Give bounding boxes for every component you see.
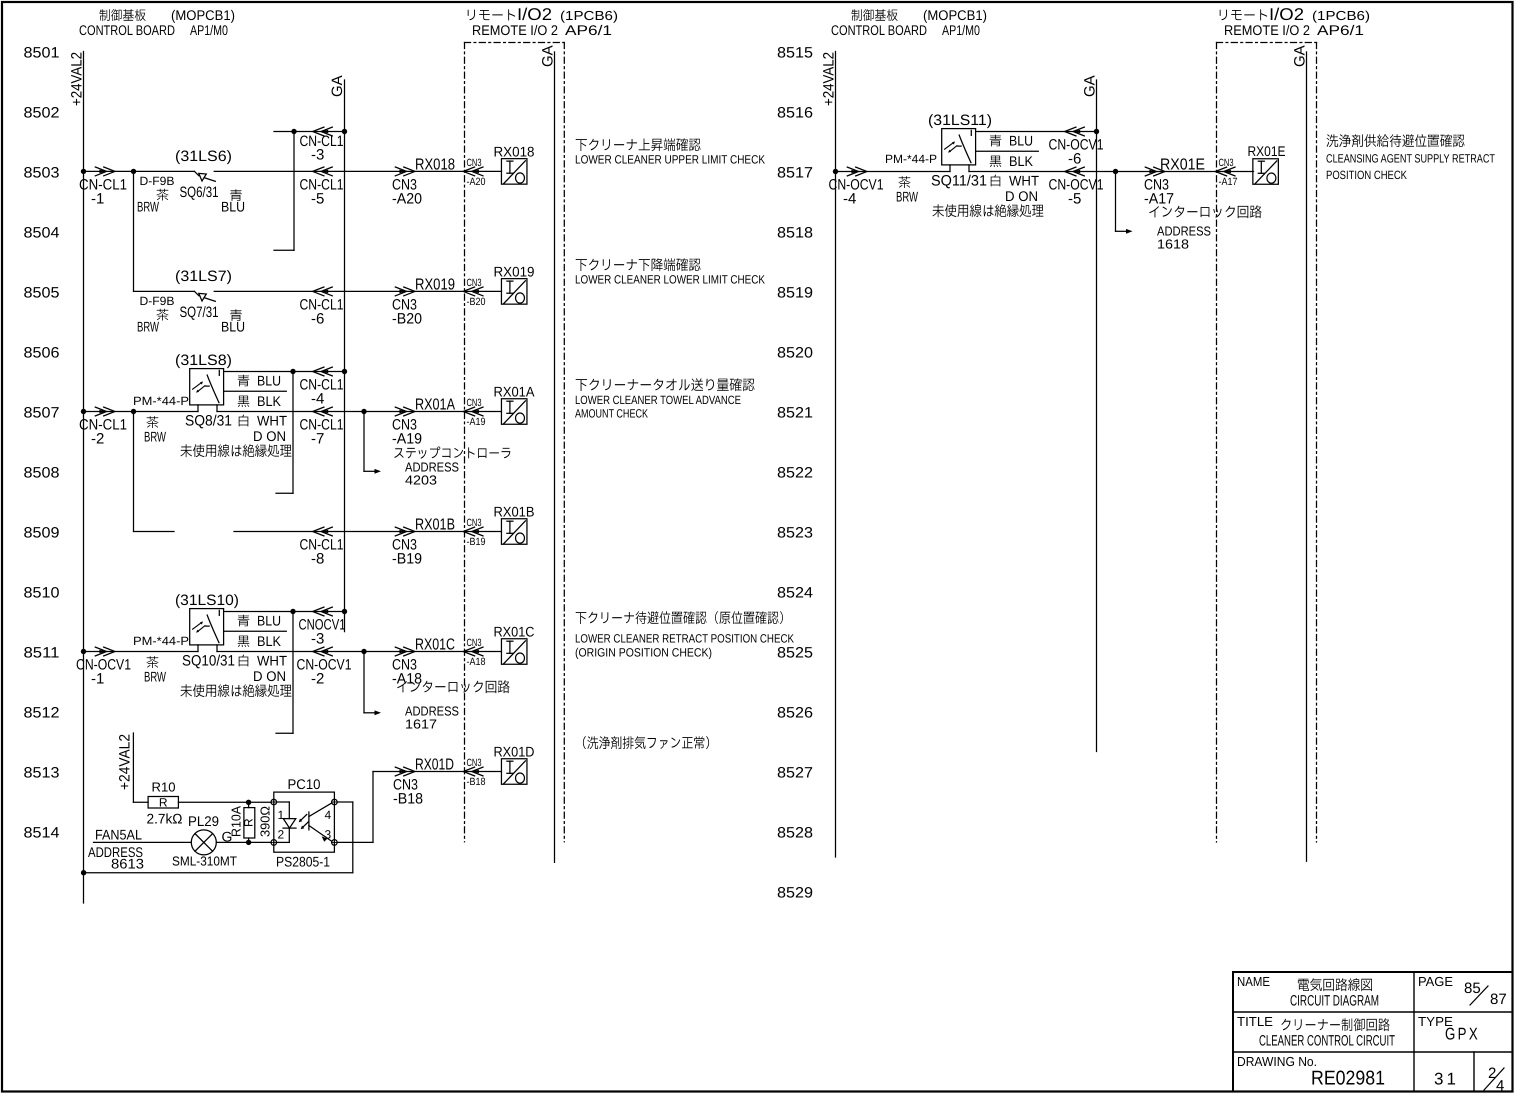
proximity switch SQ11/31 (31LS11) xyxy=(885,112,992,190)
svg-text:-A17: -A17 xyxy=(1144,191,1174,208)
svg-text:GA: GA xyxy=(1082,75,1099,97)
line number labels 8515-8529 xyxy=(777,45,813,902)
svg-text:8501: 8501 xyxy=(24,45,60,62)
connector CN-OCV1-1 xyxy=(76,647,131,687)
resistor R10 2.7k xyxy=(147,780,183,827)
svg-text:BLU: BLU xyxy=(257,613,281,629)
connector CN3-B19 (plug) xyxy=(392,517,455,568)
svg-text:8504: 8504 xyxy=(24,225,60,242)
svg-text:BLK: BLK xyxy=(257,393,282,409)
svg-text:PM-*44-P: PM-*44-P xyxy=(133,394,189,408)
svg-text:CONTROL BOARD: CONTROL BOARD xyxy=(831,22,927,38)
svg-text:-4: -4 xyxy=(843,191,856,208)
node: BLU junction 8510 xyxy=(290,609,295,614)
svg-text:D ON: D ON xyxy=(1005,188,1038,204)
GA net line (left control board) xyxy=(329,75,346,631)
node: BLU to GA xyxy=(342,369,347,374)
svg-text:CN3: CN3 xyxy=(467,157,482,169)
svg-text:CN3: CN3 xyxy=(467,637,482,649)
node: step controller branch xyxy=(361,409,366,414)
svg-text:8508: 8508 xyxy=(24,465,60,482)
svg-text:CN3: CN3 xyxy=(1219,157,1234,169)
wire BLU 31LS10 to CNOCV1-3 xyxy=(224,612,345,629)
remote I/O boundary (left, dash-dot box) xyxy=(465,43,565,842)
svg-text:PS2805-1: PS2805-1 xyxy=(276,854,330,870)
GA net line (left remote I/O) xyxy=(540,45,557,862)
svg-text:-A19: -A19 xyxy=(392,431,422,448)
svg-text:WHT: WHT xyxy=(257,413,287,429)
wire BLU 31LS11 to CN-OCV1-6 xyxy=(976,132,1097,149)
connector CN3-A17 (plug) xyxy=(1144,157,1205,208)
wire to interlock note 8517 xyxy=(1116,172,1133,234)
note: lower cleaner upper limit check xyxy=(575,138,765,166)
svg-text:BLK: BLK xyxy=(257,633,282,649)
title: cleaner control circuit xyxy=(1237,1014,1395,1050)
label WHT wire xyxy=(239,413,288,445)
svg-text:CONTROL BOARD: CONTROL BOARD xyxy=(79,22,175,38)
note: cleansing agent exhaust fan normal xyxy=(583,736,709,749)
svg-text:-1: -1 xyxy=(91,671,104,688)
line number labels 8501-8514 xyxy=(24,45,60,842)
wire BLU 31LS8 to CN-CL1-4 xyxy=(224,372,345,389)
svg-text:PM-*44-P: PM-*44-P xyxy=(885,152,937,166)
connector CN3-A20 (plug) xyxy=(392,157,455,208)
node: junction on bus 8503 xyxy=(81,169,86,174)
svg-text:-2: -2 xyxy=(91,431,104,448)
svg-text:R: R xyxy=(159,796,168,810)
svg-text:AP6/1: AP6/1 xyxy=(565,22,612,38)
note: retract position check xyxy=(575,611,794,659)
I/O input RX01B xyxy=(494,504,535,545)
svg-text:SQ7/31: SQ7/31 xyxy=(180,304,219,321)
wire branch 8503 to 8505 xyxy=(133,171,135,291)
note: unused wires insulated (8517) xyxy=(933,204,1044,217)
svg-text:PL29: PL29 xyxy=(188,813,219,829)
svg-text:FAN5AL: FAN5AL xyxy=(95,827,142,843)
svg-text:+24VAL2: +24VAL2 xyxy=(117,734,134,790)
wire 8507 bus to 31LS8 xyxy=(84,411,199,413)
proximity switch SQ8/31 (31LS8) xyxy=(133,352,232,430)
svg-text:8503: 8503 xyxy=(24,165,60,182)
title: name circuit diagram xyxy=(1237,974,1379,1010)
svg-text:SQ11/31: SQ11/31 xyxy=(931,173,987,190)
svg-text:8519: 8519 xyxy=(777,285,813,302)
node: junction on bus 8507 xyxy=(81,409,86,414)
svg-text:(31LS11): (31LS11) xyxy=(928,112,992,129)
svg-text:8520: 8520 xyxy=(777,345,813,362)
svg-text:-A18: -A18 xyxy=(392,671,422,688)
label wire colors 31LS8 xyxy=(144,416,167,444)
svg-text:GA: GA xyxy=(329,75,346,97)
node: junction on bus 8517 xyxy=(833,169,838,174)
svg-text:(1PCB6): (1PCB6) xyxy=(560,8,618,23)
node: return junction on bus xyxy=(81,870,86,875)
svg-text:-A19: -A19 xyxy=(467,416,486,428)
svg-text:CN3: CN3 xyxy=(467,757,482,769)
phototransistor inside PC10 xyxy=(309,803,332,842)
svg-text:BLK: BLK xyxy=(1009,153,1034,169)
svg-text:DRAWING No.: DRAWING No. xyxy=(1237,1054,1317,1069)
svg-text:8505: 8505 xyxy=(24,285,60,302)
I/O input RX01D xyxy=(494,744,535,785)
svg-text:R10: R10 xyxy=(152,780,176,795)
svg-text:8524: 8524 xyxy=(777,585,813,602)
svg-text:-B18: -B18 xyxy=(393,791,423,808)
svg-text:D-F9B: D-F9B xyxy=(140,174,175,188)
connector CN-CL1-8 xyxy=(300,527,344,567)
svg-text:TITLE: TITLE xyxy=(1237,1014,1273,1029)
svg-text:-A20: -A20 xyxy=(467,176,486,188)
svg-text:(31LS10): (31LS10) xyxy=(175,592,239,609)
pin 1 terminal xyxy=(271,799,285,822)
svg-text:BRW: BRW xyxy=(144,429,167,445)
signal FAN5AL wire xyxy=(94,827,192,843)
svg-text:8514: 8514 xyxy=(24,825,60,842)
svg-text:(31LS7): (31LS7) xyxy=(175,268,232,285)
svg-text:BLU: BLU xyxy=(257,373,281,389)
svg-text:-A17: -A17 xyxy=(1219,176,1238,188)
svg-text:(31LS8): (31LS8) xyxy=(175,352,232,369)
connector CN3-B20 (receptacle) xyxy=(463,277,485,308)
svg-text:RX019: RX019 xyxy=(494,264,535,280)
svg-text:BRW: BRW xyxy=(137,319,160,335)
label wire colors 31LS10 xyxy=(144,656,167,684)
wire 8517 bus to 31LS11 xyxy=(836,171,951,173)
node: R10A bottom junction xyxy=(246,840,251,845)
connector CN3-B19 (receptacle) xyxy=(463,517,485,548)
connector CN-OCV1-6 xyxy=(1049,127,1104,167)
svg-text:8523: 8523 xyxy=(777,525,813,542)
svg-text:-8: -8 xyxy=(311,551,324,568)
svg-text:2.7kΩ: 2.7kΩ xyxy=(147,811,183,827)
wire branch 8507 to 8509 xyxy=(133,412,135,532)
node: interlock branch xyxy=(361,649,366,654)
svg-text:R: R xyxy=(242,818,256,827)
I/O input RX019 xyxy=(494,264,535,305)
+24VAL2 bus (right) xyxy=(821,52,838,858)
connector CN-CL1-6 xyxy=(300,287,344,328)
svg-text:CLEANSING AGENT SUPPLY RETRACT: CLEANSING AGENT SUPPLY RETRACT xyxy=(1326,152,1496,166)
connector CN3-B20 (plug) xyxy=(392,277,455,328)
I/O input RX01C xyxy=(494,624,535,665)
limit switch SQ7/31 (31LS7) xyxy=(137,268,245,335)
wire 8503 switch to RX018 input xyxy=(214,170,501,172)
connector CN-CL1-1 xyxy=(79,167,127,208)
connector CNOCV1-3 xyxy=(299,607,346,647)
node: branch junction 8503 xyxy=(131,169,136,174)
node: R10A top junction xyxy=(246,800,251,805)
+24VAL2 bus (left) xyxy=(69,52,86,904)
connector CN3-A19 (receptacle) xyxy=(463,397,485,428)
label wire colors 31LS11 xyxy=(896,176,919,204)
svg-text:85: 85 xyxy=(1464,980,1481,997)
svg-text:RX01B: RX01B xyxy=(415,517,455,534)
wire 8507 31LS8 to RX01A input xyxy=(217,411,502,413)
svg-text:8613: 8613 xyxy=(111,856,144,872)
svg-text:NAME: NAME xyxy=(1237,974,1270,989)
svg-text:RX01B: RX01B xyxy=(494,504,535,520)
svg-text:-4: -4 xyxy=(311,391,324,408)
header: remote I/O 2 (right) xyxy=(1220,5,1370,38)
svg-text:PM-*44-P: PM-*44-P xyxy=(133,634,189,648)
svg-text:LOWER CLEANER LOWER LIMIT CHEC: LOWER CLEANER LOWER LIMIT CHECK xyxy=(575,273,765,287)
svg-text:8507: 8507 xyxy=(24,405,60,422)
svg-text:8516: 8516 xyxy=(777,105,813,122)
svg-text:8509: 8509 xyxy=(24,525,60,542)
svg-text:-A20: -A20 xyxy=(392,191,422,208)
svg-text:PC10: PC10 xyxy=(288,776,321,792)
svg-text:(31LS6): (31LS6) xyxy=(175,148,232,165)
connector CN3-A19 (plug) xyxy=(392,397,455,448)
note: lower cleaner lower limit check xyxy=(575,258,765,286)
svg-text:BLU: BLU xyxy=(221,199,245,215)
svg-text:CN3: CN3 xyxy=(467,277,482,289)
svg-text:8529: 8529 xyxy=(777,885,813,902)
svg-text:POSITION CHECK: POSITION CHECK xyxy=(1326,168,1407,182)
wire BLK 31LS8 unused (insulated) xyxy=(224,391,287,409)
note: towel advance amount check xyxy=(575,378,755,420)
connector CN-OCV1-2 xyxy=(297,647,352,687)
wire: unused pair loop 8503 xyxy=(274,132,294,251)
title: type GPX xyxy=(1418,1014,1480,1044)
svg-text:D ON: D ON xyxy=(253,428,286,444)
note: step controller ADDRESS 4203 xyxy=(394,447,510,488)
svg-text:SML-310MT: SML-310MT xyxy=(172,854,237,869)
node: BLU to GA 8510 xyxy=(342,609,347,614)
wire 8503 from bus to switch xyxy=(84,170,195,172)
svg-text:-3: -3 xyxy=(311,631,324,648)
svg-text:LOWER CLEANER RETRACT POSITION: LOWER CLEANER RETRACT POSITION CHECK xyxy=(575,632,794,646)
svg-text:-A18: -A18 xyxy=(467,656,486,668)
connector CN3-A18 (receptacle) xyxy=(463,637,485,668)
svg-text:8511: 8511 xyxy=(24,645,60,662)
svg-text:SQ8/31: SQ8/31 xyxy=(185,413,232,430)
svg-text:8526: 8526 xyxy=(777,705,813,722)
svg-text:8510: 8510 xyxy=(24,585,60,602)
connector CN-OCV1-4 xyxy=(829,167,884,207)
svg-text:RX01C: RX01C xyxy=(494,624,535,640)
svg-text:GPX: GPX xyxy=(1445,1025,1480,1044)
svg-text:WHT: WHT xyxy=(1009,173,1039,189)
svg-text:CN3: CN3 xyxy=(467,397,482,409)
wire CN-CL1-3 stub xyxy=(274,131,345,133)
wire to interlock note xyxy=(364,652,381,716)
note: unused wires insulated (8511) xyxy=(181,684,292,697)
svg-text:-5: -5 xyxy=(1068,191,1081,208)
svg-text:CLEANER CONTROL CIRCUIT: CLEANER CONTROL CIRCUIT xyxy=(1259,1033,1395,1050)
header: control board (left) xyxy=(79,7,235,38)
note: interlock circuit ADDRESS 1617 xyxy=(397,680,509,731)
svg-text:31: 31 xyxy=(1434,1070,1459,1089)
svg-text:-6: -6 xyxy=(311,311,324,328)
svg-text:4: 4 xyxy=(325,808,332,822)
node: CN-CL-3 junction xyxy=(291,129,296,134)
wire: unused pair loop 8507 xyxy=(276,372,293,494)
svg-text:1617: 1617 xyxy=(405,717,437,732)
wire 8511 bus to 31LS10 xyxy=(84,651,199,653)
GA net line (right control board) xyxy=(1082,75,1099,751)
svg-text:8515: 8515 xyxy=(777,45,813,62)
connector CN-CL1-2 xyxy=(79,407,127,447)
svg-text:RX018: RX018 xyxy=(494,144,535,160)
connector CN-CL1-3 xyxy=(300,127,344,163)
svg-text:(ORIGIN POSITION CHECK): (ORIGIN POSITION CHECK) xyxy=(575,646,712,660)
svg-text:8518: 8518 xyxy=(777,225,813,242)
svg-text:8506: 8506 xyxy=(24,345,60,362)
svg-text:+24VAL2: +24VAL2 xyxy=(69,52,86,106)
pin 2 terminal xyxy=(271,828,285,846)
svg-text:-B19: -B19 xyxy=(392,551,422,568)
node: CN-CL-3 to GA xyxy=(342,129,347,134)
svg-text:RX01A: RX01A xyxy=(415,397,455,414)
svg-text:-B20: -B20 xyxy=(467,296,486,308)
svg-text:AMOUNT CHECK: AMOUNT CHECK xyxy=(575,407,648,421)
svg-text:BRW: BRW xyxy=(137,199,160,215)
svg-text:(1PCB6): (1PCB6) xyxy=(1312,8,1370,23)
header: control board (right) xyxy=(831,7,987,38)
svg-text:390Ω: 390Ω xyxy=(258,806,273,837)
title: page 85/87 xyxy=(1418,974,1507,1008)
wire R10 to PC10 pin1 xyxy=(178,801,271,803)
title block grid xyxy=(1233,972,1512,1091)
svg-text:RX01C: RX01C xyxy=(415,637,455,654)
svg-text:D ON: D ON xyxy=(253,668,286,684)
connector CN-OCV1-5 xyxy=(1049,167,1104,207)
svg-text:87: 87 xyxy=(1490,991,1507,1008)
svg-text:RX018: RX018 xyxy=(415,157,455,174)
proximity switch SQ10/31 (31LS10) xyxy=(133,592,239,670)
title: drawing no RE02981 xyxy=(1237,1054,1385,1090)
header: remote I/O 2 (left) xyxy=(468,5,618,38)
svg-text:1618: 1618 xyxy=(1157,237,1189,252)
connector CN3-A18 (plug) xyxy=(392,637,455,688)
svg-text:-2: -2 xyxy=(311,671,324,688)
node: interlock branch 8517 xyxy=(1113,169,1118,174)
note: cleansing agent supply retract position check xyxy=(1326,134,1496,182)
connector CN-CL1-4 xyxy=(300,367,344,407)
svg-text:RX01E: RX01E xyxy=(1160,157,1205,174)
note: unused wires insulated (8507) xyxy=(181,444,292,457)
svg-text:GA: GA xyxy=(1292,45,1309,67)
svg-text:-B20: -B20 xyxy=(392,311,422,328)
wire to R10 xyxy=(133,801,148,803)
I/O input RX018 xyxy=(494,144,535,185)
svg-text:REMOTE I/O 2: REMOTE I/O 2 xyxy=(472,22,558,38)
svg-text:RX01E: RX01E xyxy=(1248,143,1286,159)
svg-text:4203: 4203 xyxy=(405,473,437,488)
pin 3 terminal xyxy=(325,828,338,846)
GA net line (right remote I/O) xyxy=(1292,45,1309,861)
wire 8517 31LS11 to RX01E input xyxy=(969,171,1254,173)
svg-text:SQ6/31: SQ6/31 xyxy=(180,184,219,201)
wire BLK 31LS11 unused (insulated) xyxy=(976,151,1039,169)
title: revision 2/4 xyxy=(1484,1065,1504,1094)
wire 8509 to RX01B input xyxy=(234,531,502,533)
svg-text:8528: 8528 xyxy=(777,825,813,842)
svg-text:GA: GA xyxy=(540,45,557,67)
wire 8505 from branch to switch xyxy=(134,290,195,292)
wire 8505 switch to RX019 input xyxy=(214,290,501,292)
svg-text:-1: -1 xyxy=(91,191,104,208)
svg-text:(MOPCB1): (MOPCB1) xyxy=(923,7,987,23)
svg-text:BLU: BLU xyxy=(1009,133,1033,149)
svg-text:RX01D: RX01D xyxy=(415,757,454,774)
svg-text:-B18: -B18 xyxy=(467,776,486,788)
svg-text:RX019: RX019 xyxy=(415,277,455,294)
svg-text:CIRCUIT DIAGRAM: CIRCUIT DIAGRAM xyxy=(1290,993,1379,1010)
wire to step controller note xyxy=(364,412,381,474)
LED inside PC10 xyxy=(277,802,296,842)
svg-text:BRW: BRW xyxy=(896,189,919,205)
label WHT wire 8517 xyxy=(991,173,1040,205)
limit switch SQ6/31 (31LS6) xyxy=(137,148,245,215)
svg-text:8512: 8512 xyxy=(24,705,60,722)
node: BLU junction xyxy=(290,369,295,374)
svg-text:REMOTE I/O 2: REMOTE I/O 2 xyxy=(1224,22,1310,38)
svg-text:2: 2 xyxy=(278,828,285,842)
note: ADDRESS 8613 xyxy=(88,844,144,872)
svg-text:AP6/1: AP6/1 xyxy=(1317,22,1364,38)
svg-text:-6: -6 xyxy=(1068,151,1081,168)
light arrows inside PC10 xyxy=(299,815,309,830)
svg-text:-5: -5 xyxy=(311,191,324,208)
svg-text:+24VAL2: +24VAL2 xyxy=(821,52,838,106)
svg-text:8502: 8502 xyxy=(24,105,60,122)
svg-text:LOWER CLEANER TOWEL ADVANCE: LOWER CLEANER TOWEL ADVANCE xyxy=(575,393,741,407)
node: branch junction 8507 xyxy=(131,409,136,414)
wire: unused pair loop 8511 xyxy=(276,612,293,734)
svg-text:AP1/M0: AP1/M0 xyxy=(190,22,228,38)
svg-text:BLU: BLU xyxy=(221,319,245,335)
resistor R10A 390 xyxy=(229,802,273,842)
note: interlock circuit ADDRESS 1618 xyxy=(1149,205,1261,251)
wire pin3 to RX01D xyxy=(337,772,501,843)
svg-text:RX01A: RX01A xyxy=(494,384,536,400)
svg-text:-3: -3 xyxy=(311,147,324,164)
optocoupler PC10 (PS2805-1) package xyxy=(274,776,335,870)
title: sheet 31 xyxy=(1434,1070,1459,1089)
remote I/O boundary (right, dash-dot box) xyxy=(1217,43,1317,843)
svg-text:LOWER CLEANER UPPER LIMIT CHEC: LOWER CLEANER UPPER LIMIT CHECK xyxy=(575,153,765,167)
svg-text:BRW: BRW xyxy=(144,669,167,685)
svg-text:(MOPCB1): (MOPCB1) xyxy=(171,7,235,23)
connector CN3-B18 (plug) xyxy=(393,757,454,808)
I/O input RX01A xyxy=(494,384,536,425)
wire lamp to PC10 pin2 xyxy=(216,841,271,843)
svg-text:8517: 8517 xyxy=(777,165,813,182)
label WHT wire 8511 xyxy=(239,653,288,685)
svg-text:4: 4 xyxy=(1496,1078,1504,1094)
connector CN3-A17 (receptacle) xyxy=(1215,157,1237,188)
pin 4 terminal xyxy=(325,799,338,822)
node: BLU to GA 8516 xyxy=(1094,129,1099,134)
svg-text:8521: 8521 xyxy=(777,405,813,422)
svg-text:RX01D: RX01D xyxy=(494,744,535,760)
wire 8511 31LS10 to RX01C input xyxy=(217,651,502,653)
svg-text:SQ10/31: SQ10/31 xyxy=(182,653,235,670)
wire pin4 to bus return xyxy=(84,802,353,873)
wire 8509 stub xyxy=(134,531,175,533)
connector CN-CL1-5 xyxy=(300,167,344,208)
svg-text:-7: -7 xyxy=(311,431,324,448)
svg-text:-B19: -B19 xyxy=(467,536,486,548)
connector CN-CL1-7 xyxy=(300,407,344,447)
wire BLK 31LS10 unused (insulated) xyxy=(224,631,287,649)
svg-text:D-F9B: D-F9B xyxy=(140,294,175,308)
svg-text:CN3: CN3 xyxy=(467,517,482,529)
I/O input RX01E xyxy=(1248,143,1286,184)
svg-text:WHT: WHT xyxy=(257,653,287,669)
